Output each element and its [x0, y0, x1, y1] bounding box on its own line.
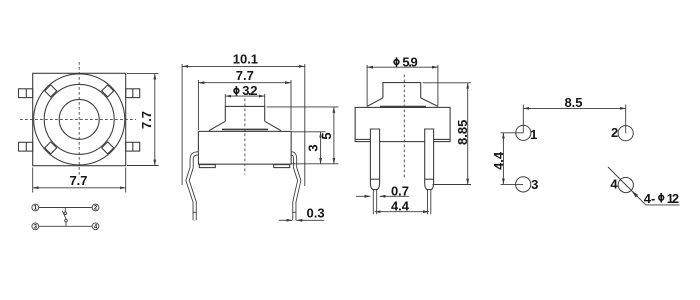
svg-text:7.7: 7.7 [139, 111, 154, 129]
svg-text:12: 12 [667, 191, 679, 206]
svg-text:2: 2 [611, 125, 618, 140]
svg-text:4.4: 4.4 [391, 198, 410, 213]
svg-text:8.85: 8.85 [455, 120, 470, 145]
svg-text:8.5: 8.5 [564, 95, 582, 110]
svg-text:5: 5 [319, 132, 334, 139]
svg-text:4: 4 [610, 177, 618, 192]
svg-text:7.7: 7.7 [69, 173, 87, 188]
svg-text:7.7: 7.7 [236, 68, 254, 83]
svg-text:0.7: 0.7 [391, 183, 409, 198]
svg-text:4-: 4- [644, 191, 656, 206]
svg-text:3.2: 3.2 [242, 83, 257, 98]
svg-text:3: 3 [531, 177, 538, 192]
svg-text:0.3: 0.3 [307, 206, 325, 221]
svg-text:1: 1 [530, 127, 537, 142]
svg-text:3: 3 [305, 144, 320, 151]
svg-text:10.1: 10.1 [233, 52, 258, 67]
svg-text:5.9: 5.9 [402, 54, 417, 69]
svg-text:4.4: 4.4 [491, 151, 506, 170]
